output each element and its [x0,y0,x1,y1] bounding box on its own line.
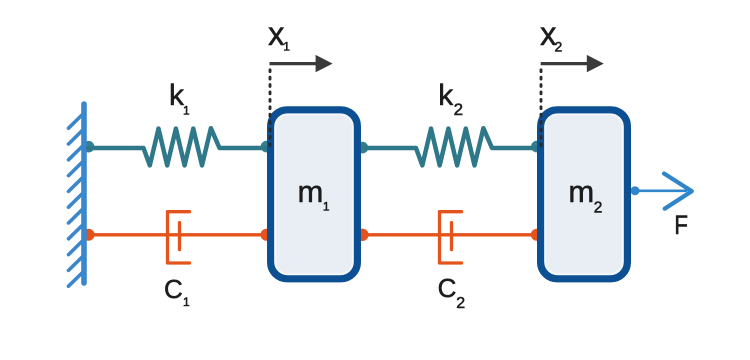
node m1-right-damper [356,229,368,241]
node m1-left-spring [261,141,273,153]
svg-text:1: 1 [183,104,190,118]
mass m2 [541,110,628,279]
displacement x2 dotted line [540,70,543,148]
node m1-left-damper [261,229,273,241]
spring k2 [364,128,535,165]
node m2-right-force [631,186,640,195]
node m2-left-damper [531,229,543,241]
damper wire 2 [364,233,535,236]
svg-text:C: C [164,274,183,304]
svg-text:1: 1 [283,40,290,54]
wall [69,104,85,286]
mass m1 [271,110,358,279]
svg-text:2: 2 [555,39,563,55]
force F arrow [635,174,692,209]
svg-text:2: 2 [594,199,603,216]
node m1-right-spring [357,142,369,154]
svg-text:1: 1 [183,295,190,309]
damper C1 [168,212,190,263]
node wall-damper [83,229,95,241]
displacement x1 arrow [270,55,333,72]
svg-text:C: C [438,273,457,303]
svg-text:k: k [438,79,454,112]
damper wire 1 [88,233,266,236]
spring k1 [88,128,266,165]
svg-text:m: m [568,174,594,209]
displacement x2 arrow [541,55,604,72]
svg-text:F: F [674,211,688,240]
svg-text:m: m [298,174,324,209]
svg-text:1: 1 [323,200,330,214]
svg-text:2: 2 [454,100,463,119]
node m2-left-spring [531,141,543,153]
svg-text:2: 2 [456,295,465,312]
displacement x1 dotted line [269,70,272,148]
damper C2 [440,212,462,263]
node wall-spring [83,141,95,153]
